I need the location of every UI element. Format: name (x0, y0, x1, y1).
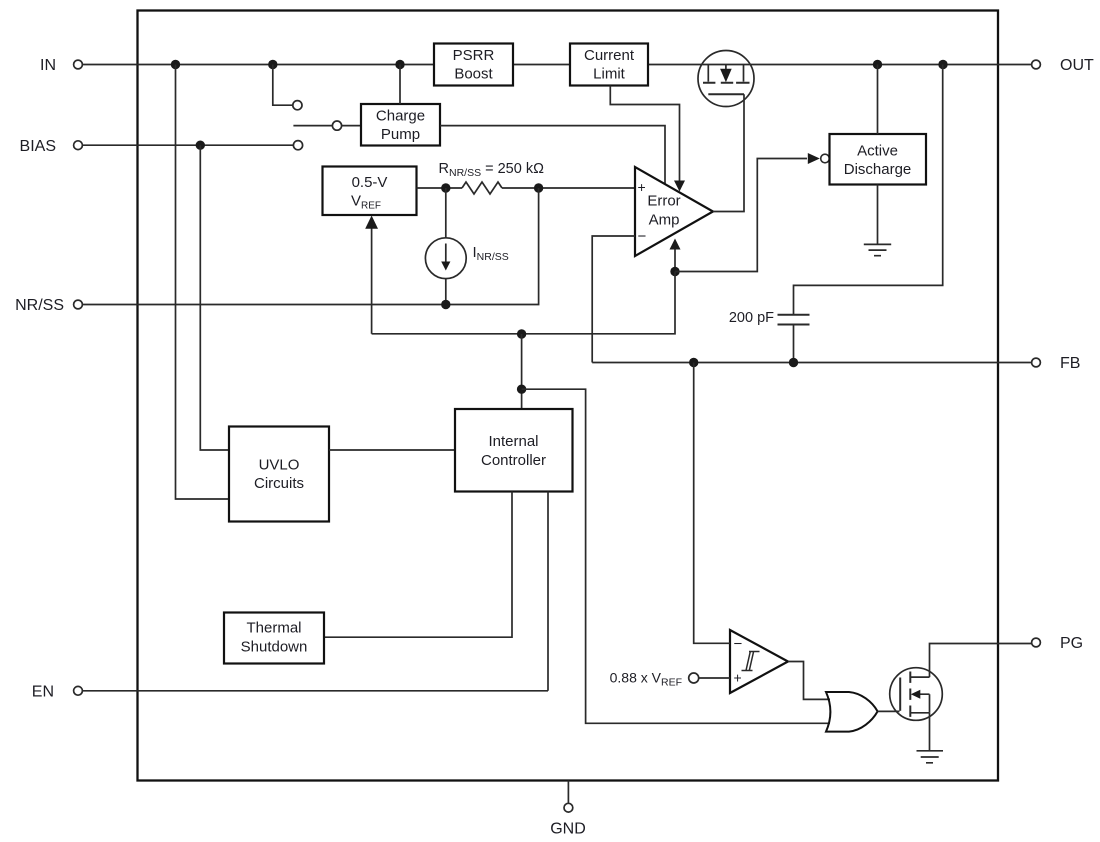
wire VREF enable arrow line (371, 228, 373, 334)
svg-text:Limit: Limit (593, 66, 626, 83)
wire error amp bottom control (674, 250, 676, 272)
node FB comparator junction (689, 358, 698, 367)
wire internal controller to EN (547, 492, 549, 691)
node IN-switch junction (268, 60, 277, 69)
node IN-UVLO junction (171, 60, 180, 69)
wire comparator output to OR gate (788, 662, 830, 700)
wire EN line (83, 690, 549, 692)
pin BIAS (20, 138, 83, 155)
block 0.5-V VREF (323, 167, 417, 216)
node resistor right junction (534, 183, 543, 192)
svg-text:RNR/SS = 250 kΩ: RNR/SS = 250 kΩ (439, 161, 545, 179)
node NR/SS current source junction (441, 300, 450, 309)
svg-text:Circuits: Circuits (254, 475, 304, 492)
block active discharge (830, 134, 927, 185)
pin PG (1032, 635, 1084, 652)
svg-text:OUT: OUT (1060, 57, 1094, 74)
op-amp error amp (635, 167, 713, 256)
svg-text:EN: EN (32, 684, 54, 701)
pin IN (40, 57, 82, 74)
wire to active discharge input (675, 159, 807, 272)
resistor RNR/SS (462, 182, 502, 194)
wire error amp minus input from FB (592, 236, 635, 363)
transistor pass FET (PMOS) (698, 51, 754, 107)
svg-text:Shutdown: Shutdown (241, 639, 308, 656)
block thermal shutdown (224, 613, 324, 664)
svg-text:Pump: Pump (381, 126, 420, 143)
block current limit (570, 44, 648, 86)
wire FB line (592, 362, 1031, 364)
switch S1 pole and blade (293, 121, 361, 130)
svg-text:INR/SS: INR/SS (473, 244, 509, 263)
node VREF output junction (441, 183, 450, 192)
switch S1 lower contact from BIAS (293, 141, 302, 150)
svg-text:+: + (734, 670, 742, 686)
wire active discharge bottom to ground (877, 185, 879, 245)
reference input 0.88xVREF (610, 670, 730, 689)
block charge pump (361, 104, 440, 146)
arrowhead into VREF bottom (365, 216, 378, 229)
block PSRR Boost (434, 44, 513, 86)
wire comparator minus input from FB (694, 363, 730, 644)
svg-text:PG: PG (1060, 635, 1083, 652)
wire internal controller control rail (372, 272, 675, 334)
node OUT-cap junction (938, 60, 947, 69)
wire current limit to error amp top (610, 86, 679, 182)
svg-text:NR/SS: NR/SS (15, 297, 64, 314)
current source INR/SS (425, 188, 466, 305)
pin EN (32, 684, 83, 701)
svg-text:VREF: VREF (351, 193, 381, 212)
wire internal controller to thermal shutdown (324, 492, 512, 638)
pin OUT (1032, 57, 1094, 74)
block UVLO circuits (229, 427, 329, 522)
svg-text:GND: GND (550, 821, 586, 838)
wire PG FET drain to PG pin (930, 644, 1032, 678)
svg-text:Internal: Internal (488, 433, 538, 450)
wire IN rail (83, 64, 1032, 66)
wire error amp output to pass FET gate (713, 94, 744, 211)
pin FB (1032, 355, 1081, 372)
svg-text:Boost: Boost (454, 66, 493, 83)
svg-text:BIAS: BIAS (20, 138, 56, 155)
arrowhead into error amp bottom (670, 239, 681, 250)
wire NR/SS line (83, 188, 539, 305)
wire to OR gate lower input (522, 389, 830, 723)
comparator PG with hysteresis (730, 630, 788, 693)
arrowhead into active discharge (808, 153, 820, 164)
svg-text:Error: Error (647, 193, 680, 210)
node control rail junction (517, 329, 526, 338)
transistor PG FET (open-drain NMOS) (890, 668, 943, 721)
pin GND (550, 781, 586, 838)
IC outer boundary box (138, 11, 999, 781)
node IN-chargepump junction (395, 60, 404, 69)
svg-text:0.5-V: 0.5-V (352, 174, 388, 191)
svg-text:Current: Current (584, 47, 635, 64)
wire BIAS to UVLO upper input (200, 145, 229, 450)
wire PG FET source to ground (929, 713, 931, 751)
svg-text:Amp: Amp (649, 212, 680, 229)
wire internal controller top (521, 334, 523, 409)
svg-text:−: − (734, 636, 743, 653)
wire VREF output rail to error amp + (417, 187, 636, 189)
wire BIAS line (83, 144, 294, 146)
ground under PG FET (917, 751, 944, 763)
node OR-gate feed junction (517, 385, 526, 394)
ground under active discharge (864, 244, 891, 255)
switch S1 upper contact from IN (273, 65, 302, 110)
svg-text:FB: FB (1060, 355, 1080, 372)
svg-text:Controller: Controller (481, 452, 546, 469)
node BIAS junction (196, 141, 205, 150)
pin NR/SS (15, 297, 82, 314)
svg-text:Discharge: Discharge (844, 161, 912, 178)
block internal controller (455, 409, 573, 492)
wire active discharge top to OUT rail (877, 65, 879, 135)
OR gate U2 (826, 692, 878, 732)
svg-text:PSRR: PSRR (453, 47, 495, 64)
wire charge pump output to error amp (440, 126, 665, 185)
node OUT-activedischarge junction (873, 60, 882, 69)
wire charge pump top to IN rail (399, 65, 401, 105)
svg-text:IN: IN (40, 57, 56, 74)
svg-text:+: + (638, 179, 646, 195)
wire IN to UVLO lower input (176, 65, 230, 500)
arrowhead into error amp top (674, 181, 685, 192)
node FB capacitor junction (789, 358, 798, 367)
svg-text:UVLO: UVLO (259, 456, 300, 473)
capacitor 200 pF (729, 65, 943, 363)
svg-text:−: − (638, 228, 647, 245)
wire OR gate output to PG FET gate (878, 710, 900, 712)
svg-text:200 pF: 200 pF (729, 310, 774, 326)
inverter bubble at active discharge input (821, 154, 830, 163)
svg-text:Thermal: Thermal (246, 620, 301, 637)
node error amp bottom junction (670, 267, 679, 276)
svg-text:0.88 x VREF: 0.88 x VREF (610, 670, 682, 689)
svg-text:Charge: Charge (376, 107, 425, 124)
svg-text:Active: Active (857, 142, 898, 159)
wire UVLO output to internal controller (329, 449, 455, 451)
